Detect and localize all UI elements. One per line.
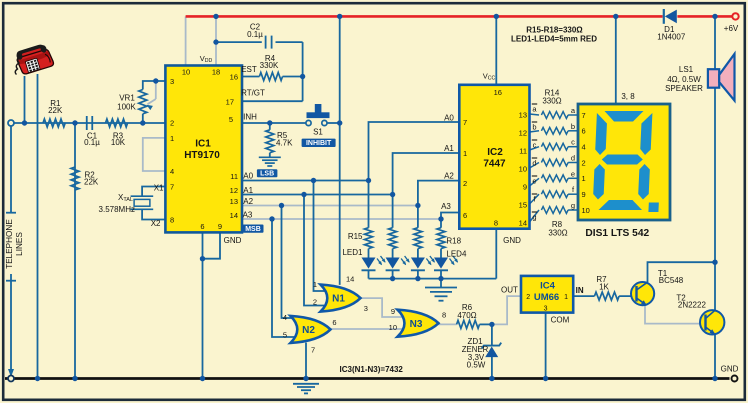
svg-text:GND: GND [503,236,521,245]
svg-text:14: 14 [519,219,527,228]
svg-text:c: c [533,141,537,150]
svg-text:N2: N2 [302,325,315,336]
svg-text:330Ω: 330Ω [548,229,567,238]
svg-text:3: 3 [544,306,548,313]
svg-text:1: 1 [313,280,317,289]
svg-text:1: 1 [463,149,467,158]
svg-text:7: 7 [170,183,174,192]
svg-text:TELEPHONE: TELEPHONE [5,219,14,269]
svg-text:g: g [571,201,575,210]
svg-text:N1: N1 [332,294,345,305]
svg-text:1: 1 [582,174,586,183]
svg-text:A2: A2 [243,197,253,206]
svg-text:9: 9 [218,222,222,231]
svg-text:0.1µ: 0.1µ [247,30,263,39]
svg-text:INH: INH [243,113,257,122]
svg-text:7: 7 [463,118,467,127]
svg-text:1: 1 [170,134,174,143]
svg-text:LED1-LED4=5mm RED: LED1-LED4=5mm RED [511,35,597,44]
svg-text:VR1: VR1 [119,94,135,103]
svg-text:17: 17 [226,98,234,107]
svg-text:A0: A0 [243,172,253,181]
svg-text:10K: 10K [111,138,126,147]
svg-text:A3: A3 [243,211,253,220]
svg-text:OUT: OUT [501,285,518,294]
svg-text:10: 10 [582,206,590,215]
svg-text:HT9170: HT9170 [184,150,220,161]
svg-text:R15: R15 [348,232,363,241]
svg-text:5: 5 [229,115,233,124]
svg-text:10: 10 [182,68,190,77]
svg-text:d: d [571,153,575,162]
svg-text:X2: X2 [151,219,161,228]
svg-text:DIS1 LTS 542: DIS1 LTS 542 [585,228,649,239]
svg-text:6: 6 [582,127,586,136]
svg-text:A3: A3 [441,202,451,211]
svg-text:X1: X1 [154,184,164,193]
svg-text:4: 4 [170,167,174,176]
svg-text:EST: EST [241,65,257,74]
svg-text:8: 8 [494,219,498,228]
svg-text:b: b [532,123,536,132]
svg-text:7: 7 [582,111,586,120]
svg-text:A0: A0 [444,113,454,122]
svg-text:IC1: IC1 [195,138,211,149]
svg-text:1: 1 [564,294,568,301]
svg-text:0.1µ: 0.1µ [84,138,100,147]
svg-text:LS1: LS1 [679,65,694,74]
svg-text:g: g [532,213,536,222]
svg-text:GND: GND [721,364,739,373]
svg-text:2: 2 [463,179,467,188]
svg-text:6: 6 [200,222,204,231]
svg-text:22K: 22K [48,106,63,115]
svg-text:1N4007: 1N4007 [657,33,686,42]
svg-text:4Ω, 0.5W: 4Ω, 0.5W [667,75,701,84]
svg-text:5: 5 [283,331,287,340]
svg-text:SPEAKER: SPEAKER [665,84,703,93]
svg-text:e: e [571,169,575,178]
svg-text:13: 13 [519,111,527,120]
svg-text:3.578MHz: 3.578MHz [99,205,135,214]
svg-text:7447: 7447 [483,159,506,170]
svg-text:3: 3 [364,304,368,313]
svg-text:1K: 1K [599,283,609,292]
svg-text:470Ω: 470Ω [457,311,476,320]
svg-text:6: 6 [332,318,336,327]
svg-text:LINES: LINES [15,232,24,256]
svg-text:UM66: UM66 [534,292,559,303]
svg-text:3: 3 [170,77,174,86]
svg-text:R15-R18=330Ω: R15-R18=330Ω [526,26,583,35]
svg-text:4: 4 [582,142,586,151]
svg-text:LED1: LED1 [342,248,363,257]
svg-text:RT/GT: RT/GT [241,89,265,98]
svg-text:A1: A1 [243,186,253,195]
svg-text:3, 8: 3, 8 [621,92,635,101]
svg-text:b: b [571,122,575,131]
svg-text:BC548: BC548 [659,276,684,285]
svg-text:LSB: LSB [260,171,274,178]
svg-text:LED4: LED4 [446,250,467,259]
svg-text:11: 11 [519,147,527,156]
svg-text:6: 6 [463,211,467,220]
svg-text:A1: A1 [444,144,454,153]
svg-text:4: 4 [283,313,287,322]
svg-text:R18: R18 [446,237,461,246]
svg-text:7: 7 [311,345,315,354]
svg-text:MSB: MSB [245,226,261,233]
svg-text:e: e [532,177,536,186]
svg-text:IN: IN [576,286,584,295]
svg-text:8: 8 [442,311,446,320]
svg-text:100K: 100K [117,103,136,112]
svg-text:14: 14 [346,275,354,284]
svg-text:9: 9 [523,183,527,192]
svg-text:330K: 330K [260,61,279,70]
svg-text:IC2: IC2 [487,147,503,158]
svg-text:IC3(N1-N3)=7432: IC3(N1-N3)=7432 [340,365,404,374]
svg-text:N3: N3 [410,319,423,330]
svg-text:COM: COM [551,316,570,325]
svg-text:2: 2 [170,119,174,128]
svg-text:18: 18 [212,68,220,77]
svg-text:9: 9 [391,307,395,316]
svg-text:10: 10 [389,323,397,332]
svg-text:S1: S1 [313,128,323,137]
svg-text:16: 16 [494,88,502,97]
svg-text:IC4: IC4 [540,281,556,292]
svg-text:A2: A2 [444,172,454,181]
svg-text:8: 8 [170,216,174,225]
svg-text:c: c [571,138,575,147]
svg-text:10: 10 [519,165,527,174]
svg-text:16: 16 [230,73,238,82]
svg-text:INHIBIT: INHIBIT [306,140,332,147]
svg-text:+6V: +6V [724,24,739,33]
svg-text:22K: 22K [84,177,99,186]
svg-text:2: 2 [526,294,530,301]
svg-text:0.5W: 0.5W [467,360,486,369]
svg-text:14: 14 [230,211,238,220]
svg-text:330Ω: 330Ω [542,97,561,106]
svg-text:4.7K: 4.7K [276,138,293,147]
svg-text:13: 13 [230,197,238,206]
svg-text:12: 12 [519,129,527,138]
svg-text:15: 15 [519,201,527,210]
svg-text:11: 11 [230,172,238,181]
svg-text:GND: GND [224,236,242,245]
svg-text:2: 2 [313,298,317,307]
svg-text:9: 9 [582,190,586,199]
svg-text:2: 2 [582,158,586,167]
svg-text:12: 12 [230,186,238,195]
svg-text:2N2222: 2N2222 [678,300,707,309]
svg-text:d: d [532,159,536,168]
